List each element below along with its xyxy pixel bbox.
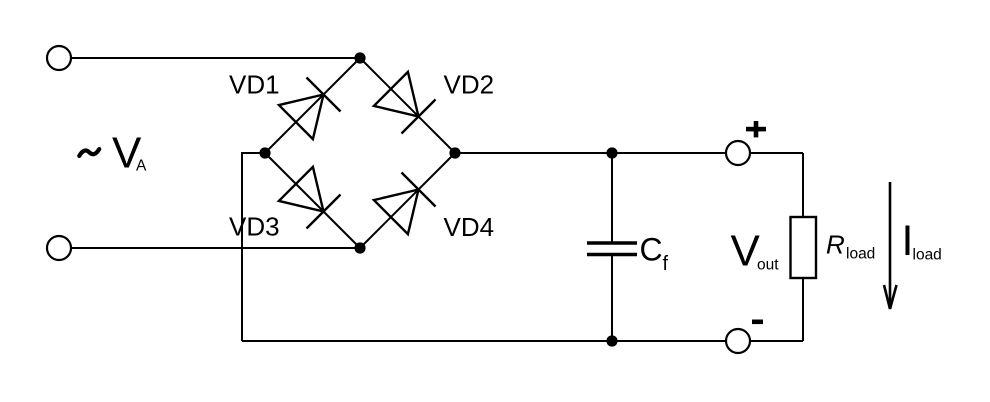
node top <box>354 52 365 63</box>
node right <box>449 147 460 158</box>
svg-text:VD4: VD4 <box>444 212 495 242</box>
diode VD2 <box>374 72 436 134</box>
resistor Rload body <box>791 217 817 278</box>
label plus sign <box>746 121 766 137</box>
svg-text:A: A <box>136 158 147 175</box>
current arrow Iload <box>884 182 897 309</box>
wire AC input bottom <box>71 247 360 249</box>
wire bottom rail <box>242 340 803 342</box>
node left <box>259 147 270 158</box>
label tilde AC <box>79 149 99 156</box>
svg-text:C: C <box>640 232 663 268</box>
svg-text:VD3: VD3 <box>229 212 280 242</box>
svg-text:out: out <box>757 257 779 274</box>
terminal input 1 <box>47 46 71 70</box>
capacitor Cf plates <box>587 243 637 255</box>
diode VD1 <box>279 78 341 140</box>
svg-text:load: load <box>913 247 942 264</box>
wire bridge edge bottom-right <box>360 153 455 248</box>
node capacitor top <box>606 147 617 158</box>
svg-text:R: R <box>826 230 845 260</box>
svg-text:V: V <box>731 227 761 276</box>
wire capacitor bottom lead <box>611 254 613 341</box>
wire bridge edge bottom-left <box>265 153 360 248</box>
diode VD4 <box>374 173 436 235</box>
terminal output plus <box>726 141 750 165</box>
wire right rail top <box>802 153 804 217</box>
node bottom <box>354 242 365 253</box>
wire AC input top <box>71 57 360 59</box>
wire bridge left stub <box>242 153 265 341</box>
wire capacitor top lead <box>611 153 613 243</box>
wire bridge edge top-left <box>265 58 360 153</box>
node capacitor bottom <box>606 335 617 346</box>
terminal output minus <box>726 329 750 353</box>
svg-text:VD2: VD2 <box>444 70 495 100</box>
diode VD3 <box>279 167 341 229</box>
svg-text:VD1: VD1 <box>229 70 280 100</box>
wire top output rail <box>455 152 803 154</box>
svg-text:f: f <box>663 253 669 275</box>
label minus sign <box>752 320 763 325</box>
wire bridge edge top-right <box>360 58 455 153</box>
terminal input 2 <box>47 236 71 260</box>
wire right rail bottom <box>802 278 804 341</box>
svg-text:load: load <box>846 246 875 263</box>
